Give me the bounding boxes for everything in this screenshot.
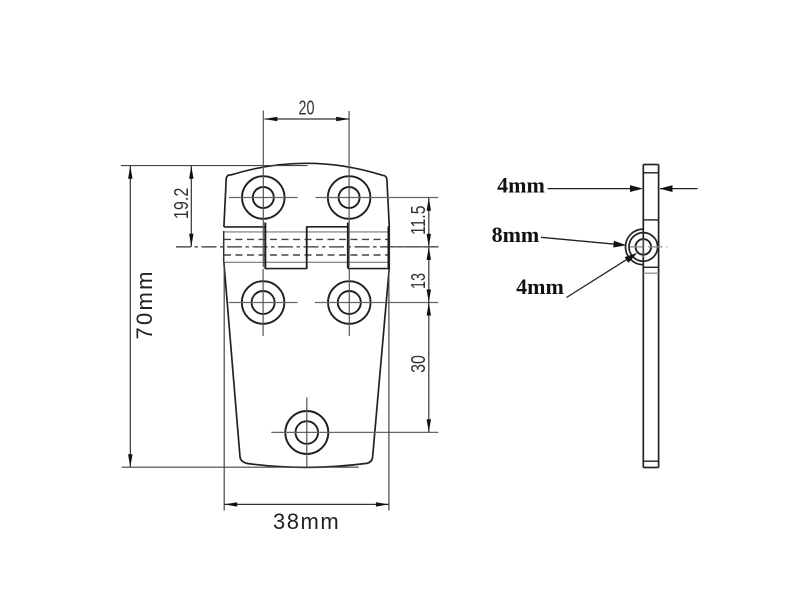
svg-text:4mm: 4mm xyxy=(497,173,545,198)
svg-text:20: 20 xyxy=(299,96,315,119)
side view strip top edge xyxy=(643,164,658,166)
svg-text:13: 13 xyxy=(406,273,429,289)
dim 30 arrow top xyxy=(427,303,431,316)
side view line above knuckle xyxy=(643,219,658,221)
ext line 70mm top xyxy=(121,165,308,167)
label 8mm leader line xyxy=(541,237,615,244)
hole top-right inner xyxy=(339,187,360,208)
dim 13 arrow bottom xyxy=(427,290,431,303)
svg-text:70mm: 70mm xyxy=(132,269,157,339)
right dim chain line xyxy=(428,198,430,433)
ext line 38mm left xyxy=(223,263,225,511)
crosshair v mid-left hole xyxy=(262,269,264,336)
side view bottom cap line xyxy=(643,460,658,462)
knuckle bottom dark segment left xyxy=(265,268,307,270)
dim 20 arrow right xyxy=(336,117,349,121)
hole bottom inner xyxy=(296,421,319,444)
flap bottom edge middle segment xyxy=(307,226,349,228)
svg-text:30: 30 xyxy=(406,355,429,373)
side view strip left edge xyxy=(642,165,644,468)
crosshair h top-left hole xyxy=(229,197,298,199)
knuckle cut line B xyxy=(306,226,308,269)
label 4mm top leader line xyxy=(548,188,633,190)
knuckle bottom dark segment right xyxy=(348,268,388,270)
hole mid-right inner xyxy=(338,291,361,314)
label 4mm top arrow right-side pointing left xyxy=(660,185,673,192)
dim 19.2 line xyxy=(190,166,192,247)
crosshair h mid-right hole + extension line 13/30 xyxy=(315,302,439,304)
side knuckle outer circle xyxy=(629,233,658,262)
dim 11.5 arrow bottom xyxy=(427,234,431,247)
side knuckle crosshair horizontal xyxy=(630,246,667,248)
dim 19.2 arrow bottom xyxy=(189,234,193,247)
side knuckle bulge arc xyxy=(626,229,644,265)
side knuckle pin hole circle xyxy=(636,239,652,255)
ext line pivot right xyxy=(389,246,438,248)
knuckle top thin line xyxy=(224,231,390,233)
side view line below knuckle gray xyxy=(643,272,658,274)
crosshair h top-right hole + extension line 11.5 xyxy=(316,197,439,199)
dim 38mm line xyxy=(224,503,389,505)
lower plate outline (tapered sides and bottom arc) xyxy=(224,263,389,468)
knuckle bottom thin line xyxy=(224,261,390,263)
hole top-left outer xyxy=(242,176,285,219)
svg-text:19.2: 19.2 xyxy=(170,188,192,220)
knuckle hidden dashed line lower xyxy=(224,254,389,256)
knuckle left edge xyxy=(223,231,225,262)
label 4mm bottom arrow xyxy=(625,253,638,263)
dim 20 arrow left xyxy=(264,117,277,121)
ext line 38mm right xyxy=(388,270,390,511)
dim 19.2 arrow top xyxy=(189,166,193,179)
label 4mm bottom leader line xyxy=(567,259,629,298)
crosshair h bottom hole + extension line 30 xyxy=(271,431,438,433)
knuckle cut line C xyxy=(347,223,349,269)
side knuckle crosshair vertical xyxy=(642,238,644,258)
hole mid-left outer xyxy=(242,281,285,324)
dim 11.5 arrow top xyxy=(427,198,431,211)
dim 70mm line xyxy=(129,166,131,467)
crosshair v mid-right hole xyxy=(348,269,350,336)
crosshair h mid-left hole xyxy=(229,302,298,304)
hole bottom outer xyxy=(285,411,328,454)
knuckle cut line D xyxy=(387,226,389,269)
side view line below knuckle dark xyxy=(643,266,658,268)
crosshair v bottom hole xyxy=(306,398,308,468)
knuckle hidden dashed line upper xyxy=(224,238,389,240)
svg-text:11.5: 11.5 xyxy=(406,206,430,236)
knuckle cut line A xyxy=(264,223,266,269)
dim 70mm arrow top xyxy=(128,166,132,179)
hinge front view: top flap outline xyxy=(224,163,389,227)
label 4mm top arrow left-side pointing right xyxy=(630,185,643,192)
hole mid-left inner xyxy=(252,291,275,314)
hole top-left inner xyxy=(253,187,274,208)
hole mid-right outer xyxy=(328,281,371,324)
dim 30 arrow bottom xyxy=(427,419,431,432)
dim 70mm arrow bottom xyxy=(128,454,132,467)
knuckle right edge xyxy=(388,227,390,269)
hinge pivot centerline xyxy=(176,246,438,248)
ext line 70mm bottom xyxy=(122,466,359,468)
dim 38mm arrow right xyxy=(376,502,389,506)
crosshair v top-right hole + extension line 20 xyxy=(348,111,350,267)
dim 13 arrow top xyxy=(427,247,431,260)
label 4mm top right shaft xyxy=(660,188,698,190)
flap bottom edge left segment xyxy=(224,226,265,228)
svg-text:8mm: 8mm xyxy=(492,222,540,247)
dim 38mm arrow left xyxy=(224,502,237,506)
hole top-right outer xyxy=(328,176,371,219)
side view strip bottom edge xyxy=(643,467,658,469)
crosshair v top-left hole + extension line 20 xyxy=(262,111,264,268)
side view top cap line xyxy=(643,172,658,174)
label 8mm arrow xyxy=(613,241,626,248)
svg-text:38mm: 38mm xyxy=(273,509,340,534)
side view strip right edge xyxy=(658,165,660,468)
svg-text:4mm: 4mm xyxy=(516,274,564,299)
dim 20 line xyxy=(264,118,349,120)
